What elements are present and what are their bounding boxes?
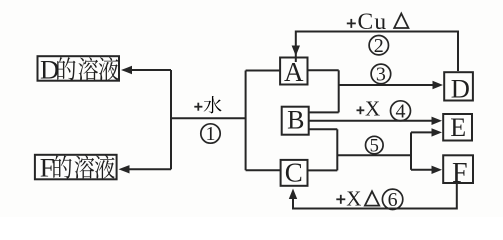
wire EF-bracket top arm to E bbox=[411, 131, 435, 133]
svg-text:1: 1 bbox=[206, 123, 216, 145]
wire EF-bracket vertical bbox=[410, 132, 412, 169]
wire lower junction vertical bbox=[336, 129, 338, 170]
label circled-6 bbox=[382, 189, 402, 211]
box F bbox=[443, 155, 473, 183]
svg-text:5: 5 bbox=[370, 136, 379, 156]
wire left-bracket vertical bbox=[170, 70, 172, 169]
arrowhead into F-solution bbox=[119, 165, 130, 173]
svg-text:D: D bbox=[451, 73, 470, 103]
wire arrow shaft to D-solution bbox=[128, 69, 171, 71]
svg-text:6: 6 bbox=[388, 189, 398, 211]
label plus-Cu bbox=[347, 9, 388, 35]
wire arrow-4 shaft B to E bbox=[309, 120, 435, 122]
wire bottom feedback F to C bbox=[293, 183, 457, 209]
svg-text:B: B bbox=[287, 105, 304, 134]
label plus-X row6 bbox=[336, 187, 361, 211]
wire EF-bracket bottom arm to F bbox=[411, 169, 435, 171]
svg-text:A: A bbox=[284, 57, 304, 87]
arrowhead into D bbox=[433, 81, 444, 89]
label circled-5 bbox=[366, 136, 384, 156]
wire top feedback D to A bbox=[296, 32, 458, 72]
wire arrow-3 shaft to D bbox=[339, 84, 435, 86]
label plus-water bbox=[194, 103, 202, 111]
svg-text:X: X bbox=[346, 187, 361, 211]
svg-text:2: 2 bbox=[374, 35, 384, 57]
svg-text:X: X bbox=[365, 96, 380, 120]
box E bbox=[443, 114, 472, 141]
arrowhead into D-solution bbox=[121, 66, 132, 74]
wire stub to C bbox=[246, 169, 281, 171]
box F-solution bbox=[35, 155, 117, 180]
label plus-X row4 bbox=[357, 96, 381, 120]
label circled-3 bbox=[371, 64, 391, 86]
wire C right stub bbox=[308, 169, 338, 171]
wire plus-water horizontal bbox=[171, 117, 246, 119]
svg-text:C: C bbox=[285, 157, 303, 187]
svg-text:D: D bbox=[40, 54, 59, 84]
arrowhead into A top bbox=[292, 46, 300, 57]
svg-text:Cu: Cu bbox=[358, 9, 388, 35]
label F-solution text bbox=[40, 153, 115, 183]
wire A right stub bbox=[308, 69, 339, 71]
svg-text:4: 4 bbox=[396, 101, 406, 123]
wire arrow shaft to F-solution bbox=[125, 168, 171, 170]
box A bbox=[280, 58, 307, 85]
label circled-4 bbox=[391, 101, 411, 123]
label circled-2 bbox=[369, 35, 388, 57]
arrowhead bracket into E bbox=[432, 128, 443, 136]
box D-solution bbox=[38, 56, 120, 80]
wire stub to A bbox=[246, 70, 280, 72]
label circled-1 bbox=[201, 123, 220, 145]
svg-text:F: F bbox=[452, 158, 468, 189]
label triangle bottom bbox=[365, 191, 379, 205]
arrowhead-4 into E bbox=[432, 117, 443, 125]
wire right-bracket vertical bbox=[245, 71, 247, 171]
arrowhead bracket into F bbox=[432, 166, 443, 174]
wire B top branch bbox=[309, 111, 339, 113]
wire line-5 to bracket bbox=[337, 154, 411, 156]
box C bbox=[281, 160, 308, 186]
svg-text:E: E bbox=[450, 113, 466, 142]
label D-solution text bbox=[40, 54, 119, 84]
box D bbox=[444, 72, 473, 100]
box B bbox=[282, 107, 309, 135]
arrowhead into C bottom bbox=[289, 189, 297, 200]
wire B bottom branch bbox=[309, 128, 337, 130]
svg-text:3: 3 bbox=[376, 64, 386, 86]
svg-text:F: F bbox=[40, 153, 55, 183]
wire upper junction vertical bbox=[338, 70, 340, 112]
label triangle top bbox=[394, 14, 408, 29]
